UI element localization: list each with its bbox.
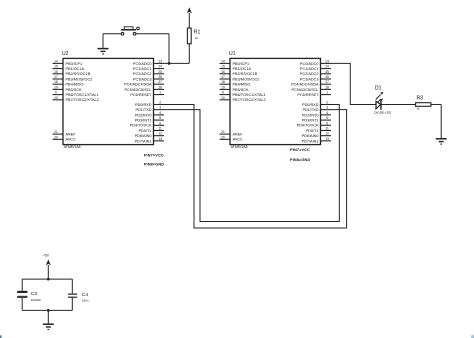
svg-text:19: 19	[54, 85, 58, 89]
svg-text:12: 12	[325, 132, 329, 136]
svg-text:20: 20	[221, 135, 225, 139]
svg-text:6: 6	[159, 121, 161, 125]
svg-text:PIN8=GND: PIN8=GND	[290, 158, 310, 162]
svg-text:PD6/AIN0: PD6/AIN0	[302, 134, 319, 138]
svg-text:PD1/TXD: PD1/TXD	[302, 108, 318, 112]
svg-text:100n: 100n	[82, 299, 89, 303]
svg-text:PB7/TOSC2/XTAL2: PB7/TOSC2/XTAL2	[233, 98, 266, 102]
svg-text:PD3/INT1: PD3/INT1	[302, 118, 319, 122]
svg-text:24: 24	[158, 65, 162, 69]
svg-text:19: 19	[221, 85, 225, 89]
svg-text:10: 10	[54, 96, 58, 100]
svg-text:28: 28	[158, 85, 162, 89]
svg-text:3: 3	[326, 106, 328, 110]
svg-text:PB5/SCK: PB5/SCK	[233, 88, 250, 92]
svg-text:PC6/RESET: PC6/RESET	[297, 93, 319, 97]
svg-text:18: 18	[54, 80, 58, 84]
svg-text:PD7/AIN1: PD7/AIN1	[302, 139, 319, 143]
svg-text:D1: D1	[375, 86, 382, 92]
svg-text:14: 14	[221, 59, 225, 63]
svg-text:PC6/RESET: PC6/RESET	[130, 93, 152, 97]
svg-text:5: 5	[326, 116, 328, 120]
svg-text:U2: U2	[62, 51, 69, 57]
svg-text:24: 24	[325, 65, 329, 69]
svg-text:PD4/T0/XCK: PD4/T0/XCK	[297, 124, 319, 128]
svg-text:11: 11	[158, 126, 162, 130]
svg-text:27: 27	[158, 80, 162, 84]
svg-text:13: 13	[325, 137, 329, 141]
svg-text:PB4/MISO: PB4/MISO	[233, 83, 251, 87]
svg-text:PC0/ADC0: PC0/ADC0	[133, 62, 152, 66]
svg-text:PB0/ICP1: PB0/ICP1	[233, 62, 250, 66]
svg-text:PB1/OC1A: PB1/OC1A	[233, 67, 252, 71]
svg-text:6: 6	[326, 121, 328, 125]
svg-text:21: 21	[221, 130, 225, 134]
svg-text:PC5/ADC5/SCL: PC5/ADC5/SCL	[291, 88, 318, 92]
svg-text:PD0/RXD: PD0/RXD	[135, 103, 152, 107]
svg-text:PC4/ADC4/SDA: PC4/ADC4/SDA	[291, 83, 319, 87]
svg-text:AVCC: AVCC	[233, 138, 244, 142]
svg-text:PD5/T1: PD5/T1	[306, 129, 319, 133]
svg-text:10: 10	[221, 96, 225, 100]
svg-text:PIN7=VCC: PIN7=VCC	[290, 148, 310, 152]
svg-text:27: 27	[325, 80, 329, 84]
svg-text:9: 9	[55, 91, 57, 95]
svg-text:PB6/TOSC1/XTAL1: PB6/TOSC1/XTAL1	[233, 93, 266, 97]
svg-text:PB4/MISO: PB4/MISO	[66, 83, 84, 87]
svg-text:PD5/T1: PD5/T1	[139, 129, 152, 133]
svg-text:2: 2	[326, 100, 328, 104]
svg-text:PD3/INT1: PD3/INT1	[135, 118, 152, 122]
svg-text:28: 28	[325, 85, 329, 89]
svg-text:PC5/ADC5/SCL: PC5/ADC5/SCL	[124, 88, 151, 92]
svg-text:PB5/SCK: PB5/SCK	[66, 88, 83, 92]
svg-text:11: 11	[325, 126, 329, 130]
svg-text:AREF: AREF	[66, 133, 77, 137]
svg-text:1k: 1k	[417, 107, 421, 111]
svg-text:1k: 1k	[195, 36, 199, 40]
svg-text:PB1/OC1A: PB1/OC1A	[66, 67, 85, 71]
svg-text:PC0/ADC0: PC0/ADC0	[300, 62, 319, 66]
svg-text:12: 12	[158, 132, 162, 136]
svg-text:U1: U1	[229, 51, 236, 57]
svg-text:PD1/TXD: PD1/TXD	[135, 108, 151, 112]
svg-text:PD4/T0/XCK: PD4/T0/XCK	[130, 124, 152, 128]
svg-text:ATMEGA8: ATMEGA8	[231, 145, 248, 149]
svg-text:25: 25	[158, 70, 162, 74]
svg-text:PB2/SS/OC1B: PB2/SS/OC1B	[233, 72, 258, 76]
svg-text:17: 17	[221, 75, 225, 79]
svg-text:PC1/ADC1: PC1/ADC1	[133, 67, 152, 71]
svg-text:PD2/INT0: PD2/INT0	[302, 113, 319, 117]
svg-text:25: 25	[325, 70, 329, 74]
svg-text:PB3/MOSI/OC2: PB3/MOSI/OC2	[66, 77, 93, 81]
svg-text:PIN8=GND: PIN8=GND	[144, 163, 164, 167]
svg-text:23: 23	[325, 59, 329, 63]
svg-text:PC4/ADC4/SDA: PC4/ADC4/SDA	[124, 83, 152, 87]
svg-text:DIODE-LED: DIODE-LED	[374, 110, 392, 114]
svg-text:R1: R1	[194, 30, 201, 36]
svg-text:PC2/ADC2: PC2/ADC2	[133, 72, 152, 76]
svg-text:9: 9	[222, 91, 224, 95]
svg-text:18: 18	[221, 80, 225, 84]
svg-text:AREF: AREF	[233, 133, 244, 137]
svg-text:PB7/TOSC2/XTAL2: PB7/TOSC2/XTAL2	[66, 98, 99, 102]
svg-text:16: 16	[54, 70, 58, 74]
svg-text:PB6/TOSC1/XTAL1: PB6/TOSC1/XTAL1	[66, 93, 99, 97]
svg-text:1: 1	[159, 91, 161, 95]
svg-text:ATMEGA8: ATMEGA8	[64, 145, 81, 149]
svg-text:PC2/ADC2: PC2/ADC2	[300, 72, 319, 76]
svg-text:4: 4	[159, 111, 161, 115]
svg-text:26: 26	[325, 75, 329, 79]
svg-text:17: 17	[54, 75, 58, 79]
svg-text:26: 26	[158, 75, 162, 79]
svg-text:PB3/MOSI/OC2: PB3/MOSI/OC2	[233, 77, 260, 81]
svg-text:PC3/ADC3: PC3/ADC3	[300, 77, 319, 81]
svg-text:15: 15	[54, 65, 58, 69]
svg-text:1: 1	[326, 91, 328, 95]
svg-text:PB0/ICP1: PB0/ICP1	[66, 62, 83, 66]
svg-text:+5V: +5V	[43, 253, 50, 257]
svg-text:2: 2	[159, 100, 161, 104]
svg-text:13: 13	[158, 137, 162, 141]
svg-text:20: 20	[54, 135, 58, 139]
svg-text:PD2/INT0: PD2/INT0	[135, 113, 152, 117]
svg-text:PIN7=VCC: PIN7=VCC	[144, 153, 164, 157]
svg-text:4: 4	[326, 111, 328, 115]
svg-text:21: 21	[54, 130, 58, 134]
svg-text:5: 5	[159, 116, 161, 120]
svg-text:C4: C4	[82, 292, 88, 298]
svg-text:AVCC: AVCC	[66, 138, 77, 142]
svg-text:PD6/AIN0: PD6/AIN0	[135, 134, 152, 138]
svg-text:14: 14	[54, 59, 58, 63]
svg-text:PD7/AIN1: PD7/AIN1	[135, 139, 152, 143]
svg-text:1000uF: 1000uF	[31, 298, 41, 302]
svg-text:23: 23	[158, 59, 162, 63]
svg-text:15: 15	[221, 65, 225, 69]
svg-text:PB2/SS/OC1B: PB2/SS/OC1B	[66, 72, 91, 76]
svg-text:16: 16	[221, 70, 225, 74]
svg-text:R3: R3	[417, 96, 424, 102]
svg-text:PC1/ADC1: PC1/ADC1	[300, 67, 319, 71]
svg-text:PD0/RXD: PD0/RXD	[302, 103, 319, 107]
svg-text:C3: C3	[31, 291, 37, 297]
svg-text:PC3/ADC3: PC3/ADC3	[133, 77, 152, 81]
svg-text:3: 3	[159, 106, 161, 110]
